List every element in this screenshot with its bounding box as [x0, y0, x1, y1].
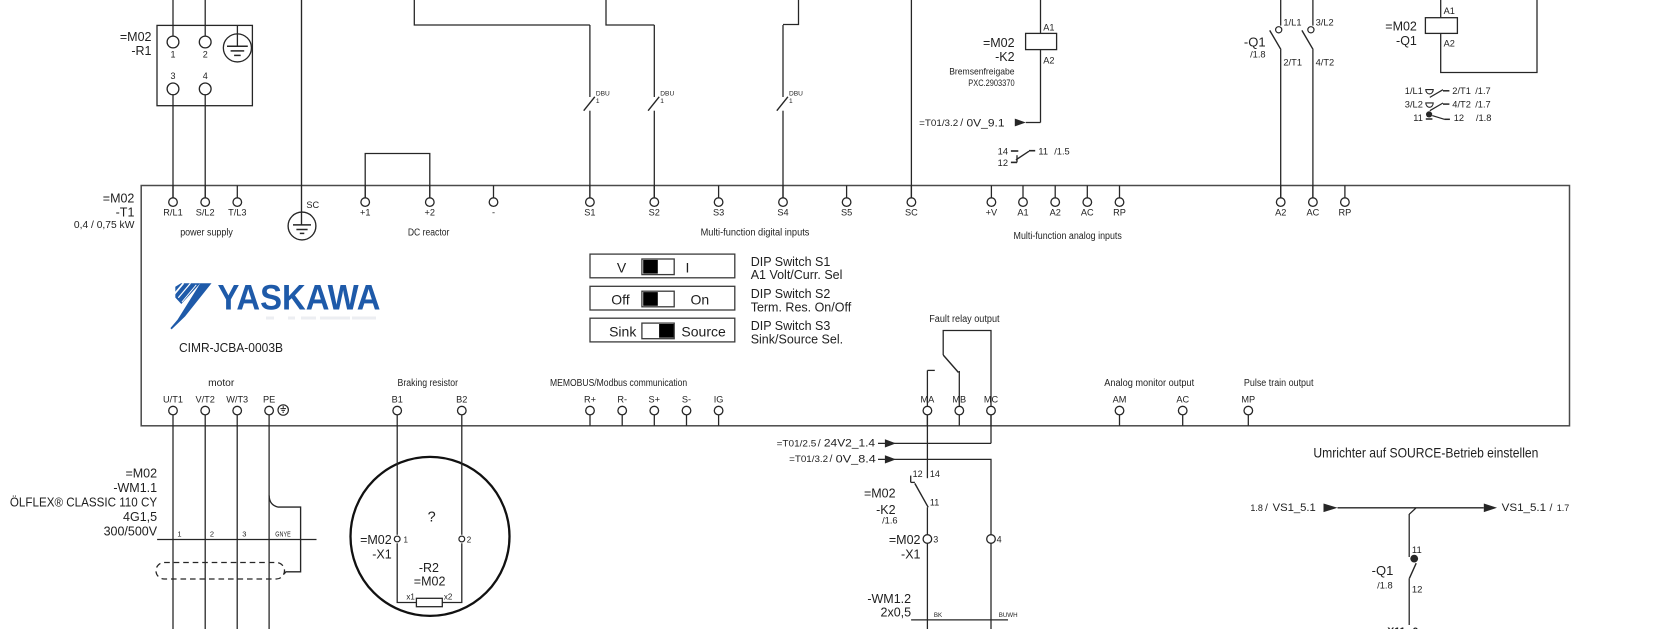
- svg-text:-R2: -R2: [419, 561, 439, 575]
- svg-text:-WM1.2: -WM1.2: [867, 592, 911, 606]
- svg-text:/: /: [818, 437, 821, 449]
- svg-text:1.8: 1.8: [1250, 503, 1263, 513]
- svg-text:3: 3: [933, 535, 938, 545]
- svg-text:=M02: =M02: [120, 30, 152, 44]
- svg-text:x1: x1: [406, 592, 415, 601]
- svg-text:A2: A2: [1444, 39, 1455, 49]
- svg-text:SC: SC: [306, 200, 319, 210]
- svg-text:=M02: =M02: [103, 192, 135, 206]
- svg-text:=M02: =M02: [889, 533, 921, 547]
- svg-text:X11: X11: [1387, 626, 1405, 629]
- svg-text:BUWH: BUWH: [999, 612, 1018, 619]
- svg-text:2/T1: 2/T1: [1283, 58, 1302, 68]
- svg-text:S2: S2: [649, 207, 660, 217]
- svg-text:1: 1: [404, 535, 409, 544]
- svg-text:+V: +V: [986, 207, 998, 217]
- svg-text:S1: S1: [584, 207, 595, 217]
- svg-text:RP: RP: [1339, 207, 1352, 217]
- svg-text:Source: Source: [681, 324, 726, 340]
- svg-text:AC: AC: [1307, 207, 1320, 217]
- svg-text:VS1_5.1: VS1_5.1: [1502, 502, 1547, 514]
- svg-text:/: /: [1265, 502, 1268, 514]
- svg-text:3: 3: [170, 71, 175, 81]
- svg-text:SC: SC: [905, 207, 918, 217]
- svg-text:2: 2: [203, 50, 208, 60]
- svg-text:DIP Switch S3: DIP Switch S3: [751, 319, 831, 333]
- svg-text:Pulse train output: Pulse train output: [1244, 378, 1314, 389]
- svg-text:1: 1: [177, 530, 181, 539]
- svg-text:Sink: Sink: [609, 324, 637, 340]
- svg-text:Analog monitor output: Analog monitor output: [1104, 378, 1194, 389]
- svg-text:DIP Switch S1: DIP Switch S1: [751, 255, 831, 269]
- svg-text:ÖLFLEX® CLASSIC 110 CY: ÖLFLEX® CLASSIC 110 CY: [10, 495, 158, 509]
- svg-text:S/L2: S/L2: [196, 207, 215, 217]
- svg-text:A1 Volt/Curr. Sel: A1 Volt/Curr. Sel: [751, 268, 843, 282]
- svg-text:1: 1: [170, 50, 175, 60]
- svg-text:=T01/2.5: =T01/2.5: [777, 438, 817, 448]
- svg-text:=M02: =M02: [1385, 20, 1417, 34]
- svg-text:YASKAWA: YASKAWA: [218, 279, 381, 318]
- svg-text:BK: BK: [934, 612, 943, 619]
- svg-text:B2: B2: [456, 395, 467, 405]
- svg-text:4/T2: 4/T2: [1452, 100, 1471, 110]
- svg-text:12: 12: [1412, 585, 1423, 596]
- svg-text:-Q1: -Q1: [1372, 563, 1394, 578]
- svg-text:-X1: -X1: [372, 547, 392, 561]
- svg-text:4: 4: [203, 71, 208, 81]
- svg-text:S4: S4: [777, 207, 788, 217]
- svg-text:0: 0: [1413, 626, 1419, 629]
- svg-text:/1.5: /1.5: [1054, 147, 1070, 157]
- svg-text:=M02: =M02: [125, 467, 157, 481]
- svg-text:/1.7: /1.7: [1475, 86, 1491, 96]
- svg-text:11: 11: [1412, 545, 1422, 556]
- svg-text:power supply: power supply: [180, 227, 233, 238]
- svg-text:A1: A1: [1017, 207, 1028, 217]
- svg-text:CIMR-JCBA-0003B: CIMR-JCBA-0003B: [179, 341, 283, 355]
- svg-text:=M02: =M02: [360, 533, 392, 547]
- svg-text:DC reactor: DC reactor: [408, 227, 450, 238]
- svg-text:/1.8: /1.8: [1250, 50, 1266, 60]
- svg-text:W/T3: W/T3: [226, 395, 248, 405]
- svg-text:=T01/3.2: =T01/3.2: [789, 454, 828, 464]
- svg-text:PE: PE: [263, 395, 275, 405]
- svg-text:A2: A2: [1050, 207, 1061, 217]
- svg-text:AC: AC: [1176, 395, 1189, 405]
- svg-text:+1: +1: [360, 207, 370, 217]
- svg-text:2/T1: 2/T1: [1452, 86, 1471, 96]
- svg-text:14: 14: [930, 469, 940, 479]
- svg-text:motor: motor: [208, 378, 235, 389]
- svg-text:?: ?: [428, 510, 436, 526]
- svg-text:Sink/Source Sel.: Sink/Source Sel.: [751, 332, 843, 346]
- svg-text:Fault relay output: Fault relay output: [929, 314, 1000, 325]
- svg-text:S5: S5: [841, 207, 852, 217]
- svg-text:AM: AM: [1113, 395, 1127, 405]
- svg-text:VS1_5.1: VS1_5.1: [1273, 502, 1316, 514]
- svg-text:A2: A2: [1275, 207, 1286, 217]
- svg-text:AC: AC: [1081, 207, 1094, 217]
- svg-text:V/T2: V/T2: [195, 395, 214, 405]
- svg-text:On: On: [690, 292, 709, 308]
- svg-text:/1.7: /1.7: [1475, 100, 1491, 110]
- svg-text:x2: x2: [444, 592, 453, 601]
- svg-text:Multi-function analog inputs: Multi-function analog inputs: [1014, 231, 1122, 242]
- svg-text:S3: S3: [713, 207, 724, 217]
- svg-text:/1.6: /1.6: [882, 515, 898, 525]
- svg-text:B1: B1: [392, 395, 403, 405]
- svg-text:T/L3: T/L3: [228, 207, 246, 217]
- svg-text:1: 1: [596, 98, 600, 105]
- svg-text:2: 2: [467, 535, 472, 544]
- svg-text:Multi-function digital inputs: Multi-function digital inputs: [701, 227, 810, 238]
- svg-text:Term. Res. On/Off: Term. Res. On/Off: [751, 300, 852, 314]
- svg-text:MP: MP: [1241, 395, 1255, 405]
- svg-text:Umrichter auf SOURCE-Betrieb e: Umrichter auf SOURCE-Betrieb einstellen: [1313, 444, 1538, 460]
- svg-text:2x0,5: 2x0,5: [881, 605, 912, 619]
- svg-text:/: /: [1550, 502, 1553, 514]
- svg-text:=T01/3.2: =T01/3.2: [919, 118, 958, 128]
- svg-text:-WM1.1: -WM1.1: [113, 481, 157, 495]
- svg-text:3/L2: 3/L2: [1405, 100, 1423, 110]
- svg-text:S+: S+: [649, 395, 661, 405]
- svg-text:3/L2: 3/L2: [1316, 17, 1334, 27]
- svg-text:/1.8: /1.8: [1377, 581, 1393, 591]
- svg-text:12: 12: [913, 469, 923, 479]
- svg-text:1.7: 1.7: [1557, 503, 1570, 513]
- svg-text:12: 12: [998, 158, 1008, 168]
- svg-text:=M02: =M02: [983, 36, 1015, 50]
- svg-text:Bremsenfreigabe: Bremsenfreigabe: [949, 66, 1014, 76]
- svg-text:DBU: DBU: [596, 90, 610, 97]
- svg-text:I: I: [686, 259, 690, 275]
- svg-text:-: -: [492, 207, 495, 217]
- svg-text:1: 1: [660, 98, 664, 105]
- svg-text:11: 11: [1038, 147, 1048, 157]
- svg-text:0V_8.4: 0V_8.4: [836, 453, 876, 465]
- svg-text:RP: RP: [1113, 207, 1126, 217]
- svg-text:R/L1: R/L1: [163, 207, 182, 217]
- svg-text:R-: R-: [617, 395, 627, 405]
- svg-text:1/L1: 1/L1: [1283, 17, 1301, 27]
- svg-text:-T1: -T1: [116, 206, 135, 220]
- svg-text:A1: A1: [1043, 23, 1054, 33]
- svg-text:/: /: [960, 117, 963, 129]
- svg-text:=M02: =M02: [414, 575, 446, 589]
- svg-text:11: 11: [1413, 113, 1423, 123]
- svg-text:-X1: -X1: [901, 548, 921, 562]
- svg-text:GNYE: GNYE: [275, 532, 291, 539]
- svg-text:300/500V: 300/500V: [104, 524, 158, 538]
- svg-text:MEMOBUS/Modbus communication: MEMOBUS/Modbus communication: [550, 378, 687, 389]
- svg-text:3: 3: [242, 530, 246, 539]
- svg-text:0V_9.1: 0V_9.1: [967, 118, 1005, 130]
- svg-text:Braking resistor: Braking resistor: [398, 378, 459, 389]
- svg-text:DBU: DBU: [660, 90, 674, 97]
- svg-text:4/T2: 4/T2: [1316, 58, 1335, 68]
- svg-text:24V2_1.4: 24V2_1.4: [824, 438, 875, 450]
- svg-text:/1.8: /1.8: [1476, 113, 1492, 123]
- svg-text:1/L1: 1/L1: [1405, 86, 1423, 96]
- svg-text:4G1,5: 4G1,5: [123, 510, 157, 524]
- svg-text:A2: A2: [1043, 55, 1054, 65]
- svg-text:IG: IG: [714, 395, 724, 405]
- svg-text:A1: A1: [1444, 6, 1455, 16]
- svg-text:-K2: -K2: [995, 50, 1015, 64]
- svg-text:12: 12: [1454, 113, 1464, 123]
- svg-text:-R1: -R1: [131, 44, 151, 58]
- svg-text:11: 11: [930, 498, 939, 508]
- svg-text:DIP Switch S2: DIP Switch S2: [751, 287, 831, 301]
- svg-text:S-: S-: [682, 395, 691, 405]
- svg-text:1: 1: [789, 98, 793, 105]
- svg-text:Off: Off: [611, 292, 630, 308]
- svg-text:DBU: DBU: [789, 90, 803, 97]
- svg-text:-Q1: -Q1: [1396, 34, 1417, 48]
- svg-text:4: 4: [997, 535, 1002, 545]
- svg-text:=M02: =M02: [864, 487, 896, 501]
- svg-text:-Q1: -Q1: [1244, 35, 1266, 50]
- svg-text:PXC.2903370: PXC.2903370: [968, 78, 1014, 88]
- svg-text:/: /: [830, 453, 833, 465]
- svg-text:2: 2: [210, 530, 214, 539]
- svg-text:V: V: [617, 259, 627, 275]
- svg-text:U/T1: U/T1: [163, 395, 183, 405]
- svg-text:R+: R+: [584, 395, 596, 405]
- svg-text:14: 14: [998, 147, 1008, 157]
- svg-text:0,4 / 0,75 kW: 0,4 / 0,75 kW: [74, 220, 135, 231]
- svg-text:+2: +2: [425, 207, 435, 217]
